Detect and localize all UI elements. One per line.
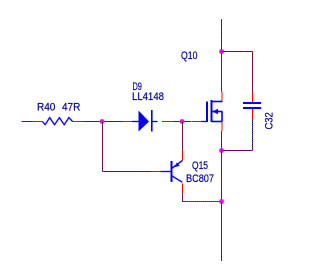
svg-text:BC807: BC807 — [186, 173, 214, 185]
node C2 junction dot — [219, 199, 224, 204]
transistor Q10 body (MOSFET) — [201, 100, 223, 122]
wire C32 branch back to node C1 — [222, 150, 253, 152]
svg-text:Q10: Q10 — [181, 50, 198, 62]
wire Q10 source down to node C1 — [221, 131, 223, 151]
svg-text:47R: 47R — [62, 102, 80, 114]
node B junction dot — [180, 119, 185, 124]
wire Q15 collector down — [182, 194, 184, 202]
wire to Q15 base — [103, 171, 151, 173]
node T junction dot — [219, 49, 224, 54]
svg-text:R40: R40 — [37, 102, 55, 114]
diode D9 pin right (cathode) — [162, 121, 173, 123]
wire collector to node C2 — [182, 201, 222, 203]
capacitor C32 pin bottom — [252, 109, 254, 119]
wire node A to D9 — [102, 121, 122, 123]
wire C32 bottom down — [252, 119, 254, 151]
wire left stub into R40 — [22, 121, 33, 123]
transistor Q10 gate pin — [192, 121, 202, 123]
capacitor C32 body — [243, 102, 261, 109]
resistor R40 pin right — [73, 121, 83, 123]
wire node A down — [102, 122, 104, 172]
transistor Q15 collector pin — [182, 184, 184, 194]
transistor Q10 source pin — [221, 122, 223, 132]
wire node T down to Q10 drain — [221, 52, 223, 92]
svg-text:LL4148: LL4148 — [132, 91, 164, 103]
wire D9 to node B and on to Q10 gate — [173, 121, 192, 123]
wire R40 to node A — [83, 121, 102, 123]
wire node C1 to node C2 — [221, 151, 223, 202]
resistor R40 pin left — [32, 121, 43, 123]
node C1 junction dot — [219, 148, 224, 153]
transistor Q15 body — [161, 160, 183, 182]
wire C32 branch down — [252, 52, 254, 93]
wire node B down to Q15 emitter — [182, 122, 184, 151]
diode D9 pin left (anode) — [122, 121, 133, 123]
diode D9 body — [132, 110, 158, 132]
wire node C2 down to bottom — [221, 202, 223, 262]
node A junction dot — [100, 119, 105, 124]
resistor R40 body — [42, 118, 72, 125]
transistor Q10 drain pin — [221, 92, 223, 102]
wire node T right to C32 branch — [222, 51, 253, 53]
svg-text:C32: C32 — [264, 112, 276, 129]
wire top stub down to node T — [221, 19, 223, 52]
transistor Q15 emitter pin — [182, 151, 184, 161]
transistor Q15 base pin — [151, 171, 161, 173]
capacitor C32 pin top — [252, 93, 254, 104]
svg-text:Q15: Q15 — [192, 160, 208, 172]
